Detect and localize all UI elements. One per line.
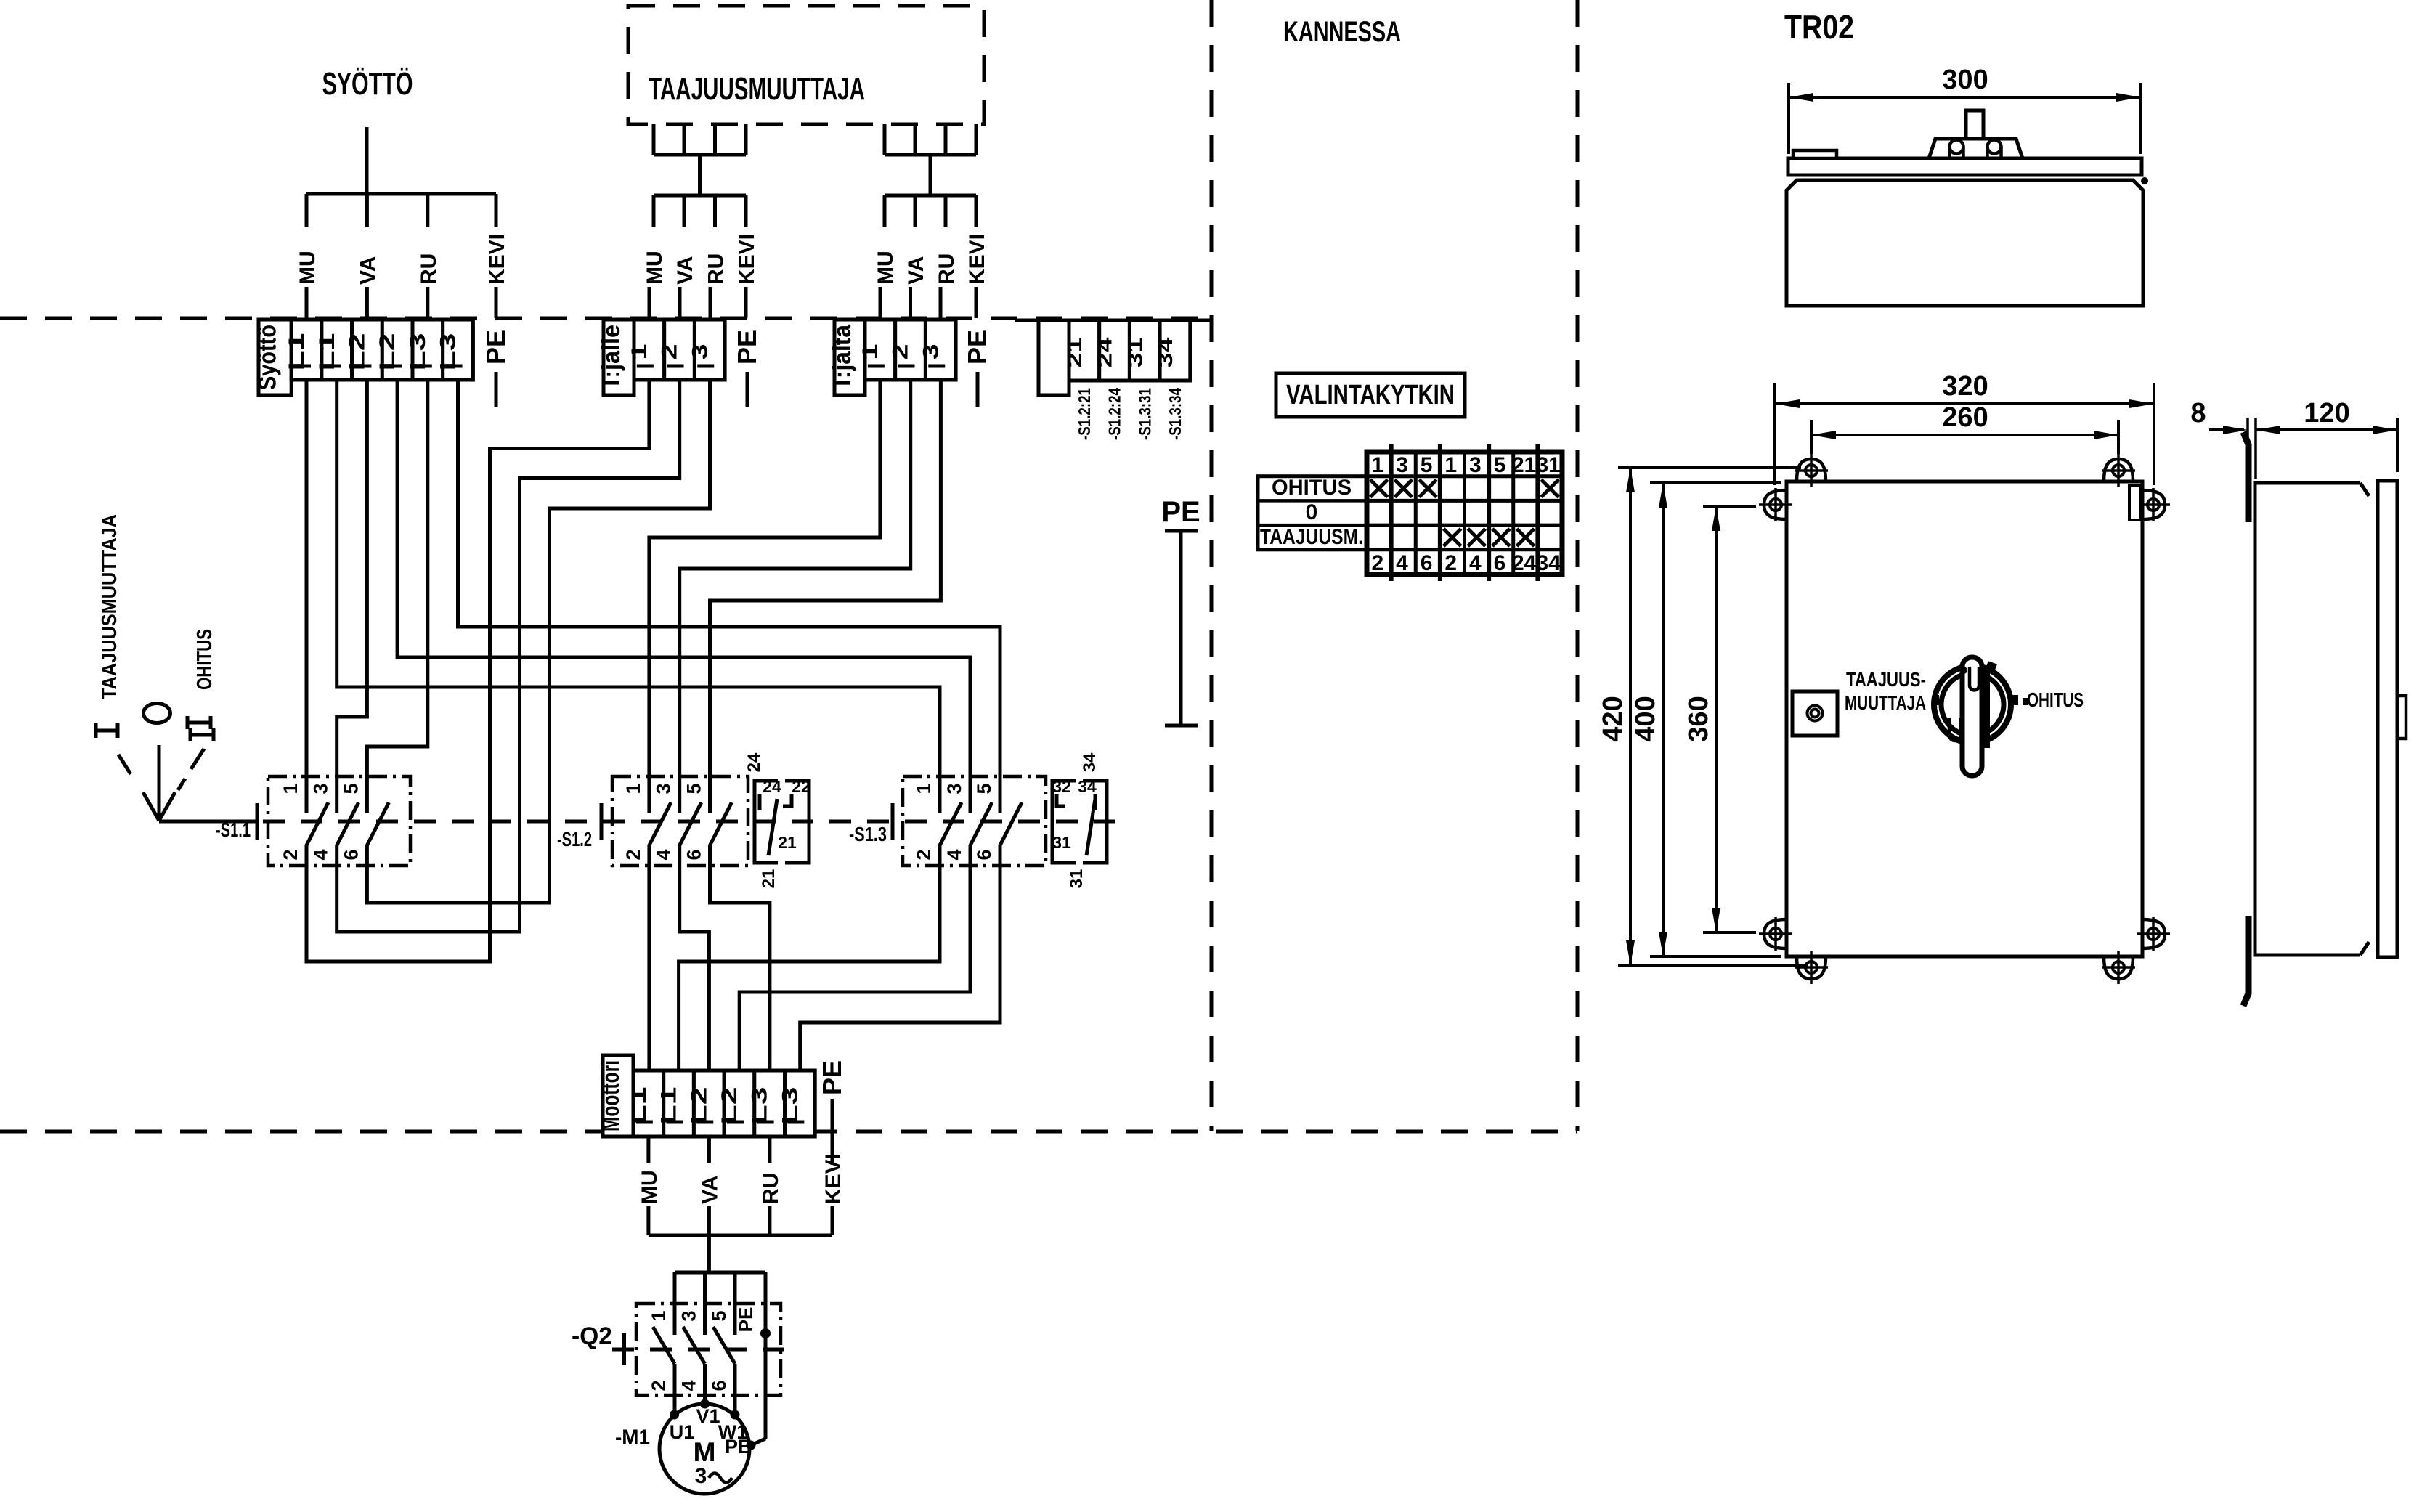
svg-text:KEVI: KEVI <box>821 1153 845 1204</box>
svg-text:VALINTAKYTKIN: VALINTAKYTKIN <box>1286 380 1455 410</box>
svg-text:31: 31 <box>1067 869 1086 889</box>
svg-text:21: 21 <box>1512 453 1536 477</box>
svg-text:6: 6 <box>973 849 995 860</box>
svg-text:TAAJUUSM.: TAAJUUSM. <box>1260 525 1363 549</box>
svg-text:-S1.2:24: -S1.2:24 <box>1105 388 1124 440</box>
svg-text:-S1.3:31: -S1.3:31 <box>1135 388 1154 440</box>
svg-text:3: 3 <box>695 1464 707 1488</box>
svg-text:V1: V1 <box>696 1405 720 1427</box>
svg-text:21: 21 <box>1063 338 1086 368</box>
svg-text:31: 31 <box>1052 833 1071 852</box>
svg-text:3: 3 <box>678 1310 700 1321</box>
svg-text:2: 2 <box>280 849 301 860</box>
svg-text:3: 3 <box>1396 453 1408 477</box>
svg-text:5: 5 <box>1421 453 1433 477</box>
svg-text:MU: MU <box>874 251 898 285</box>
svg-text:2: 2 <box>913 849 935 860</box>
svg-text:5: 5 <box>1494 453 1506 477</box>
svg-text:2: 2 <box>648 1380 670 1391</box>
svg-text:KEVI: KEVI <box>485 234 509 285</box>
svg-text:VA: VA <box>673 256 697 285</box>
svg-text:VA: VA <box>698 1176 722 1204</box>
svg-text:RU: RU <box>759 1173 783 1204</box>
svg-text:6: 6 <box>340 849 362 860</box>
svg-text:-S1.1: -S1.1 <box>216 818 251 841</box>
svg-text:RU: RU <box>704 253 728 285</box>
svg-text:6: 6 <box>683 849 705 860</box>
svg-text:-M1: -M1 <box>615 1426 650 1450</box>
svg-text:PE: PE <box>732 330 762 365</box>
svg-text:VA: VA <box>356 256 380 285</box>
svg-text:1: 1 <box>913 783 935 794</box>
svg-text:5: 5 <box>683 783 705 794</box>
svg-text:120: 120 <box>2304 398 2349 428</box>
svg-text:3: 3 <box>1469 453 1482 477</box>
svg-text:L2: L2 <box>718 1087 741 1125</box>
svg-text:T:jalle: T:jalle <box>598 325 625 390</box>
svg-text:0: 0 <box>1306 500 1318 524</box>
svg-text:VA: VA <box>904 256 928 285</box>
svg-text:3: 3 <box>919 344 943 360</box>
svg-text:34: 34 <box>1078 777 1097 796</box>
svg-text:PE: PE <box>962 330 992 365</box>
svg-text:RU: RU <box>935 253 959 285</box>
svg-text:21: 21 <box>778 833 797 852</box>
svg-text:260: 260 <box>1942 402 1988 433</box>
svg-text:M: M <box>694 1437 716 1467</box>
svg-text:-S1.3:34: -S1.3:34 <box>1166 388 1184 440</box>
svg-text:5: 5 <box>973 783 995 794</box>
svg-text:-S1.3: -S1.3 <box>849 823 887 845</box>
svg-text:MU: MU <box>296 251 320 285</box>
svg-text:24: 24 <box>763 777 781 796</box>
svg-text:3: 3 <box>653 783 675 794</box>
svg-text:KEVI: KEVI <box>965 234 989 285</box>
svg-text:Moottori: Moottori <box>597 1060 625 1131</box>
svg-text:6: 6 <box>708 1380 730 1391</box>
svg-text:U1: U1 <box>670 1421 695 1443</box>
svg-text:24: 24 <box>1512 551 1536 575</box>
svg-text:300: 300 <box>1942 65 1988 95</box>
svg-text:2: 2 <box>1371 551 1383 575</box>
svg-text:PE: PE <box>1161 496 1200 528</box>
svg-text:OHITUS: OHITUS <box>193 629 216 690</box>
svg-text:Syöttö: Syöttö <box>254 325 282 390</box>
svg-text:22: 22 <box>792 777 810 796</box>
svg-text:4: 4 <box>1396 551 1408 575</box>
svg-text:1: 1 <box>280 783 301 794</box>
svg-text:RU: RU <box>417 253 441 285</box>
svg-text:1: 1 <box>627 344 651 360</box>
svg-text:OHITUS: OHITUS <box>2027 688 2084 711</box>
svg-text:5: 5 <box>708 1310 730 1321</box>
svg-text:1: 1 <box>1444 453 1457 477</box>
svg-text:3: 3 <box>310 783 332 794</box>
svg-text:4: 4 <box>1469 551 1482 575</box>
svg-text:1: 1 <box>622 783 644 794</box>
svg-text:3: 3 <box>943 783 965 794</box>
svg-text:400: 400 <box>1630 696 1661 741</box>
svg-text:OHITUS: OHITUS <box>1272 476 1352 500</box>
svg-text:L3: L3 <box>748 1087 772 1125</box>
svg-text:24: 24 <box>744 752 764 772</box>
svg-text:-Q2: -Q2 <box>572 1322 612 1350</box>
svg-text:PE: PE <box>817 1060 847 1095</box>
svg-text:PE: PE <box>725 1436 751 1458</box>
svg-text:2: 2 <box>889 344 913 360</box>
svg-text:TAAJUUS-: TAAJUUS- <box>1846 668 1926 691</box>
svg-text:31: 31 <box>1537 453 1561 477</box>
svg-text:34: 34 <box>1080 752 1100 772</box>
svg-text:420: 420 <box>1598 696 1628 741</box>
svg-text:24: 24 <box>1094 337 1116 368</box>
svg-text:21: 21 <box>759 869 779 889</box>
svg-text:MUUTTAJA: MUUTTAJA <box>1845 691 1926 714</box>
svg-text:L1: L1 <box>657 1087 681 1125</box>
svg-text:-S1.2: -S1.2 <box>557 828 592 850</box>
svg-text:TR02: TR02 <box>1784 8 1854 46</box>
svg-text:6: 6 <box>1421 551 1433 575</box>
svg-text:T:jalta: T:jalta <box>829 324 856 390</box>
svg-text:5: 5 <box>340 783 362 794</box>
svg-text:2: 2 <box>658 344 682 360</box>
svg-text:1: 1 <box>648 1310 670 1321</box>
svg-text:8: 8 <box>2190 398 2206 428</box>
svg-text:320: 320 <box>1942 371 1988 402</box>
svg-text:34: 34 <box>1537 551 1561 575</box>
svg-text:SYÖTTÖ: SYÖTTÖ <box>322 66 413 102</box>
svg-text:PE: PE <box>481 330 511 365</box>
svg-text:32: 32 <box>1052 777 1071 796</box>
svg-text:1: 1 <box>858 344 882 360</box>
svg-text:TAAJUUSMUUTTAJA: TAAJUUSMUUTTAJA <box>98 514 121 699</box>
svg-text:360: 360 <box>1683 696 1714 741</box>
svg-text:3: 3 <box>688 344 712 360</box>
svg-text:34: 34 <box>1154 337 1177 368</box>
svg-text:6: 6 <box>1494 551 1506 575</box>
svg-text:1: 1 <box>1371 453 1383 477</box>
svg-text:4: 4 <box>310 849 332 860</box>
svg-text:31: 31 <box>1123 338 1146 368</box>
svg-text:2: 2 <box>1444 551 1457 575</box>
svg-text:MU: MU <box>638 1170 662 1204</box>
svg-text:2: 2 <box>622 849 644 860</box>
svg-text:PE: PE <box>735 1307 757 1333</box>
svg-text:KEVI: KEVI <box>735 234 759 285</box>
svg-text:TAAJUUSMUUTTAJA: TAAJUUSMUUTTAJA <box>649 71 865 107</box>
svg-text:MU: MU <box>643 251 667 285</box>
svg-text:L3: L3 <box>778 1087 802 1125</box>
svg-text:4: 4 <box>943 849 965 860</box>
svg-text:4: 4 <box>653 849 675 860</box>
svg-text:4: 4 <box>678 1380 700 1391</box>
svg-text:L2: L2 <box>687 1087 711 1125</box>
svg-text:-S1.2:21: -S1.2:21 <box>1075 388 1094 440</box>
svg-text:KANNESSA: KANNESSA <box>1283 16 1401 48</box>
